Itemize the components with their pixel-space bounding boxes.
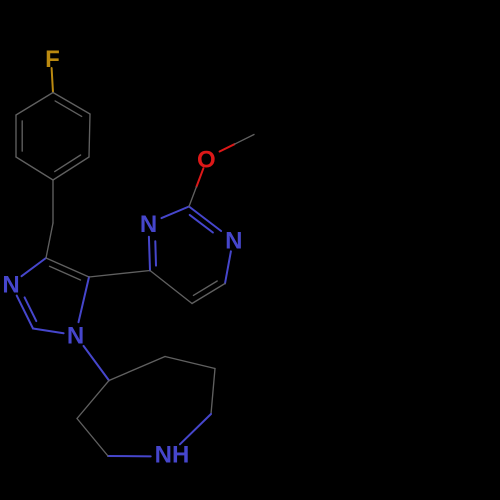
- bond N1imid-C ring: [84, 346, 110, 381]
- svg-text:N: N: [225, 228, 242, 255]
- phenyl C6=C1 inner: [55, 101, 82, 117]
- phenyl C2-C3: [15, 115, 17, 157]
- pyrim N1-C2: [162, 207, 190, 219]
- bond O-CH3 red half: [220, 144, 235, 151]
- svg-text:O: O: [197, 147, 216, 174]
- bond O-C2pyrim red half: [196, 168, 203, 187]
- svg-text:N: N: [140, 211, 157, 238]
- bond C4phenyl-CH2: [52, 180, 54, 223]
- imid N3-C4: [22, 258, 47, 276]
- phenyl C5-C6: [89, 114, 90, 157]
- imid C4=C5: [46, 258, 89, 277]
- satring NH-C6: [108, 455, 151, 457]
- phenyl C3-C4: [16, 157, 53, 180]
- bond CH2-C4imid: [46, 223, 53, 258]
- bond O-CH3 gray half: [235, 135, 255, 145]
- bond C5imid-C4pyrim: [89, 271, 150, 278]
- bond F-C1 (olive): [52, 68, 53, 93]
- phenyl C2=C3 inner: [21, 121, 23, 151]
- satring C3-C4: [211, 369, 215, 415]
- pyrim C5-C4: [150, 271, 192, 304]
- pyrim C2=N3 inner: [190, 215, 213, 233]
- satring C7-C1: [77, 381, 109, 419]
- bond O-C2pyrim gray half: [189, 187, 196, 207]
- pyrim C2=N3: [189, 207, 221, 232]
- imid C2-N1: [33, 329, 64, 334]
- svg-text:NH: NH: [155, 441, 190, 468]
- pyrim N1=C4: [149, 237, 150, 271]
- satring C2-C3: [165, 357, 215, 369]
- imid N3=C2 inner: [25, 297, 37, 321]
- satring C1-C2: [109, 357, 165, 381]
- phenyl C1-C2: [16, 93, 53, 116]
- satring C4-NH: [180, 414, 211, 444]
- satring C6-C7: [77, 419, 108, 457]
- imid C4=C5 inner: [50, 266, 81, 280]
- pyrim C6=C5: [192, 284, 225, 304]
- imid C5-N1: [79, 277, 90, 322]
- svg-text:N: N: [2, 272, 19, 299]
- phenyl C4=C5 inner: [55, 155, 81, 172]
- pyrim N1=C4 inner: [154, 241, 157, 265]
- pyrim C6=C5 inner: [193, 281, 217, 295]
- svg-text:N: N: [67, 323, 84, 350]
- pyrim N3-C6: [225, 251, 231, 283]
- imid N3=C2: [17, 296, 33, 329]
- phenyl C6-C1: [53, 93, 90, 115]
- svg-text:F: F: [45, 46, 60, 73]
- phenyl C4-C5: [53, 157, 89, 180]
